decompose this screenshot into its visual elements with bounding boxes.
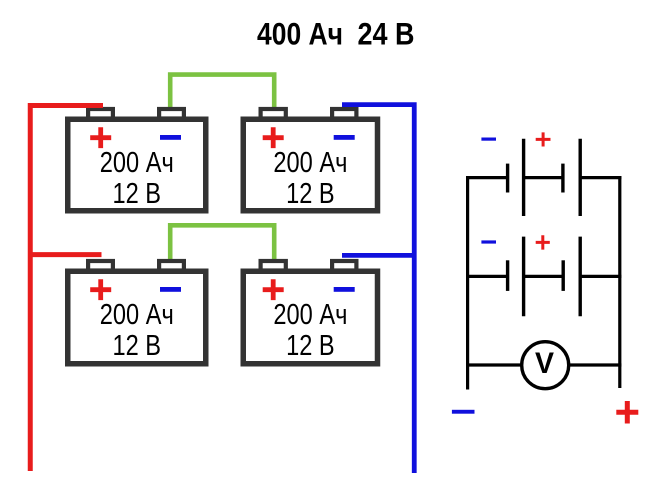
battery B2 case xyxy=(243,119,377,211)
output plus label (bottom right) xyxy=(616,401,638,424)
terminal B3 left (+) xyxy=(88,261,113,271)
schematic row1 cell1 short plate xyxy=(506,164,509,193)
schematic row2 cell2 long plate xyxy=(579,237,582,317)
wire: blue stub to B4 - terminal xyxy=(342,253,414,258)
terminal B1 left (+) xyxy=(88,109,113,119)
B2 minus sign xyxy=(334,135,355,140)
schematic row2 minus label xyxy=(481,240,496,243)
wire: red stub to B3 + terminal xyxy=(28,252,102,257)
schematic battery row 1 wires xyxy=(466,176,621,179)
svg-text:12 В: 12 В xyxy=(113,330,162,362)
schematic: right rail xyxy=(618,176,621,388)
svg-text:24 В: 24 В xyxy=(358,15,415,51)
schematic row2 cell1 long plate xyxy=(522,237,525,317)
B3 minus sign xyxy=(160,287,181,292)
B1 plus sign xyxy=(90,127,111,148)
svg-text:200 Ач: 200 Ач xyxy=(273,147,347,179)
svg-text:12 В: 12 В xyxy=(286,330,335,362)
battery B2 (top-right, 200 Ач 12 В) xyxy=(243,109,377,211)
schematic row1 cell2 short plate xyxy=(561,164,564,193)
battery B1 case xyxy=(68,119,206,211)
terminal B4 right (-) xyxy=(332,261,356,271)
voltmeter V1 circle xyxy=(522,342,569,389)
battery B4 case xyxy=(243,271,377,364)
output minus label (bottom left) xyxy=(452,410,475,414)
battery B3 case xyxy=(68,271,206,364)
terminal B1 right (-) xyxy=(159,109,184,119)
svg-text:200 Ач: 200 Ач xyxy=(100,147,174,179)
terminal B4 left (+) xyxy=(261,261,286,271)
svg-text:200 Ач: 200 Ач xyxy=(100,299,174,331)
wire: red positive bus (to B1 + terminal, down left side) xyxy=(30,106,103,472)
B3 plus sign xyxy=(90,279,111,300)
battery B4 (bottom-right, 200 Ач 12 В) xyxy=(243,261,377,364)
terminal B3 right (-) xyxy=(159,261,184,271)
schematic: bottom wire xyxy=(466,363,621,366)
battery B3 (bottom-left, 200 Ач 12 В) xyxy=(68,261,206,364)
schematic row2 cell2 short plate xyxy=(562,260,565,291)
wire: green series link top (B1+ terminal to B2- terminal) xyxy=(170,75,274,110)
schematic row1 minus label xyxy=(481,138,496,141)
svg-text:12 В: 12 В xyxy=(286,178,335,210)
terminal B2 left (+) xyxy=(261,109,286,119)
schematic row1 plus label xyxy=(536,132,551,146)
schematic battery row 2 wires xyxy=(466,275,621,278)
terminal B2 right (-) xyxy=(332,109,356,119)
B1 minus sign xyxy=(160,135,181,140)
schematic row2 cell1 short plate xyxy=(506,260,509,291)
wire: green series link bottom (B3+ terminal to B4- terminal) xyxy=(170,225,274,261)
B4 minus sign xyxy=(334,287,355,292)
schematic: left rail xyxy=(466,176,469,390)
B4 plus sign xyxy=(263,279,284,300)
svg-text:200 Ач: 200 Ач xyxy=(273,299,347,331)
schematic row2 plus label xyxy=(536,235,550,249)
svg-text:12 В: 12 В xyxy=(113,178,162,210)
battery B1 (top-left, 200 Ач 12 В) xyxy=(68,109,206,211)
wire: blue negative bus (from B2 - terminal, down right side) xyxy=(342,105,414,473)
svg-text:400 Ач: 400 Ач xyxy=(257,15,343,51)
B2 plus sign xyxy=(263,127,284,148)
schematic row1 cell1 long plate xyxy=(522,139,525,216)
schematic row1 cell2 long plate xyxy=(579,139,582,216)
svg-text:V: V xyxy=(535,347,554,380)
